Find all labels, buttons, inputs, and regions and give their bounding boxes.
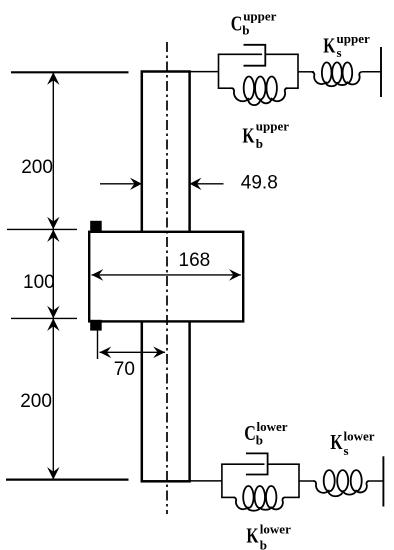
- lower bearing box top edge right: [268, 463, 300, 465]
- svg-text:lower: lower: [344, 428, 375, 443]
- svg-text:K: K: [323, 34, 336, 58]
- dimension tick top: [11, 71, 129, 73]
- arrowhead up below lower-mid tick: [47, 318, 59, 331]
- lower bearing box left side: [221, 464, 223, 497]
- wire Ks lower to wall: [369, 480, 383, 482]
- wire shaft to upper bearing box: [190, 71, 219, 73]
- spring Kb lower (coil): [234, 497, 285, 510]
- arrowhead up below upper-mid tick: [47, 229, 59, 242]
- upper bearing box top edge left (damper rod): [218, 53, 262, 55]
- wire Ks upper to wall: [362, 71, 381, 73]
- arrowhead right at disk right edge: [229, 269, 241, 281]
- spring Ks upper (coil): [312, 72, 362, 86]
- arrowhead up at top tick: [47, 72, 59, 85]
- svg-text:b: b: [242, 22, 249, 37]
- arrowhead left at shaft right edge: [190, 178, 202, 190]
- spring Kb upper (coil): [232, 88, 288, 105]
- wall lower (support line): [382, 456, 384, 506]
- lower bearing box bottom edge right stub: [285, 496, 300, 498]
- arrowhead left at disk left edge: [92, 269, 104, 281]
- svg-text:s: s: [337, 45, 342, 60]
- lower bearing box right side: [298, 464, 300, 497]
- wall upper (support line): [380, 47, 382, 97]
- dimension 70 line: [100, 351, 166, 353]
- svg-text:b: b: [256, 433, 263, 448]
- svg-text:K: K: [242, 124, 255, 148]
- upper bearing box top edge right: [265, 53, 299, 55]
- arrowhead down at lower-mid tick: [47, 306, 59, 319]
- svg-text:upper: upper: [337, 31, 370, 46]
- lower bearing box bottom edge left stub: [221, 496, 235, 498]
- svg-text:C: C: [231, 12, 243, 36]
- arrowhead down at upper-mid tick: [47, 217, 59, 230]
- upper bearing box bottom edge right stub: [286, 87, 299, 89]
- svg-text:upper: upper: [256, 118, 289, 133]
- dimension 168 line: [92, 274, 241, 276]
- svg-text:K: K: [330, 430, 343, 454]
- key top-left (black square): [90, 221, 102, 232]
- svg-text:K: K: [246, 524, 259, 548]
- dimension 70 tick: [97, 329, 99, 360]
- arrowhead right at centerline: [153, 347, 165, 359]
- svg-text:100: 100: [23, 272, 55, 293]
- svg-text:C: C: [244, 421, 256, 445]
- damper Cb upper cylinder: [244, 45, 266, 66]
- svg-text:s: s: [344, 443, 349, 458]
- svg-text:49.8: 49.8: [241, 173, 278, 194]
- dimension tick upper-mid: [7, 228, 77, 230]
- dimension 49.8 right line: [191, 183, 223, 185]
- wire shaft to lower bearing box: [190, 480, 222, 482]
- svg-text:200: 200: [21, 157, 53, 178]
- centerline (dash-dot axis): [166, 42, 168, 514]
- arrowhead left at 70 tick: [100, 347, 112, 359]
- svg-text:200: 200: [20, 391, 52, 412]
- wire lower box to Ks spring: [299, 480, 315, 482]
- arrowhead right at shaft left edge: [130, 178, 142, 190]
- spring Ks lower (coil): [314, 481, 370, 496]
- dimension line vertical: [52, 72, 54, 479]
- svg-text:70: 70: [114, 359, 135, 380]
- svg-text:168: 168: [179, 250, 211, 271]
- dimension tick lower-mid: [11, 317, 77, 319]
- svg-text:b: b: [256, 136, 263, 151]
- dimension 49.8 left line: [100, 183, 140, 185]
- damper Cb lower cylinder: [246, 453, 268, 474]
- key bottom-left (black square): [90, 320, 102, 331]
- disk (central mass): [89, 232, 243, 322]
- upper bearing box bottom edge left stub: [218, 87, 233, 89]
- svg-text:lower: lower: [260, 521, 291, 536]
- upper bearing box left side: [218, 54, 220, 88]
- svg-text:b: b: [260, 537, 267, 550]
- dimension tick bottom: [6, 479, 129, 481]
- lower bearing box top edge left (damper rod): [221, 463, 264, 465]
- shaft (vertical rotor): [142, 72, 190, 482]
- wire upper box to Ks spring: [298, 71, 314, 73]
- upper bearing box right side: [297, 54, 299, 88]
- arrowhead down at bottom tick: [47, 467, 59, 480]
